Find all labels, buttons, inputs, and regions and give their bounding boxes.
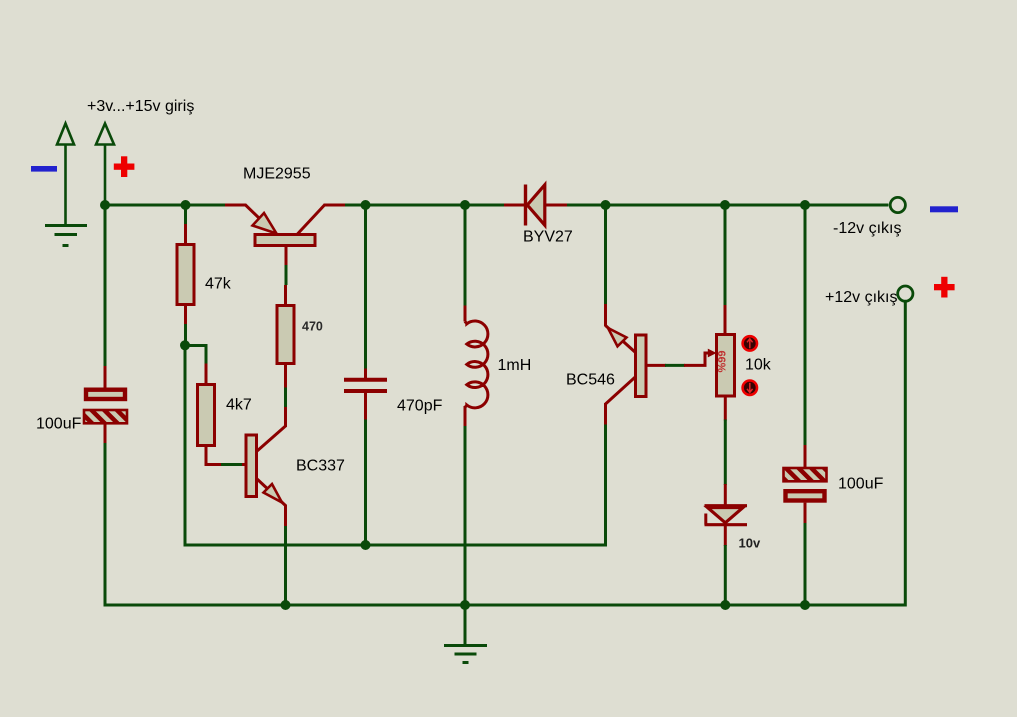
wire: zener bottom to ground bus: [724, 545, 727, 605]
junction: divider node A at (185,345.5): [180, 340, 190, 350]
svg-text:1mH: 1mH: [498, 357, 532, 374]
wire: BC546 emitter to feedback bus: [604, 425, 607, 547]
junction: inductor top at (465,205): [460, 200, 470, 210]
svg-text:47k: 47k: [205, 276, 232, 293]
junction: 470pF tap on feedback bus: [361, 540, 371, 550]
wire: +12v terminal down to ground bus: [904, 302, 907, 607]
wire: 4k7 to BC337 base: [221, 463, 242, 466]
svg-text:%99: %99: [717, 350, 729, 372]
junction: output cap tap at (805,205): [800, 200, 810, 210]
transistor BC337 (NPN): [242, 407, 286, 527]
wire: 470pF bottom to feedback bus: [364, 420, 367, 546]
wire: 47k bottom to divider node: [184, 324, 187, 346]
node: minus polarity marker (output): [930, 206, 958, 212]
potentiometer 10k: [684, 304, 735, 421]
wire: BC546 collector up: [604, 205, 607, 304]
junction: input node at (105,205): [100, 200, 110, 210]
svg-text:BC337: BC337: [296, 458, 345, 475]
wire: inductor bottom to ground bus: [464, 426, 467, 605]
svg-text:4k7: 4k7: [226, 397, 252, 414]
node: minus polarity marker (input): [31, 166, 57, 172]
wire: MJE2955 base to 470: [285, 265, 288, 285]
capacitor 100uF (input, left): [84, 366, 127, 444]
wire: output rail (-12v net, top right): [567, 204, 889, 207]
junction: 47k tap at (185.5,205): [181, 200, 191, 210]
node: plus polarity marker (input): [114, 156, 135, 177]
junction: output cap tap on ground bus: [800, 600, 810, 610]
svg-text:470pF: 470pF: [397, 398, 443, 415]
wire: input cap bottom to ground bus: [104, 443, 107, 607]
wire: output cap top: [804, 205, 807, 445]
wire: collector rail (switch node, top middle): [345, 204, 504, 207]
svg-text:10v: 10v: [739, 536, 761, 551]
junction: BC337 emitter on ground bus: [281, 600, 291, 610]
transistor BC546 (NPN): [605, 303, 666, 426]
terminal: +12v output: [898, 286, 913, 301]
transistor MJE2955 (PNP, top): [225, 205, 345, 266]
wire: 470 bottom to BC337 collector: [284, 388, 287, 409]
wire: output cap bottom to ground bus: [804, 523, 807, 605]
inductor 1mH: [465, 304, 488, 427]
svg-text:BYV27: BYV27: [523, 229, 573, 246]
feedback bus wire (middle horizontal): [185, 544, 606, 547]
resistor 470: [277, 285, 294, 389]
wire: input rail (top left, +V net): [105, 205, 225, 368]
wire: BC546 base link: [665, 364, 685, 367]
resistor 4k7: [198, 364, 223, 465]
junction: pot top tap at (725,205): [720, 200, 730, 210]
svg-text:470: 470: [302, 320, 323, 334]
node: plus polarity marker (output): [934, 277, 955, 298]
capacitor 100uF (output, right): [784, 444, 827, 525]
wire: divider node jog to 4k7: [185, 346, 206, 365]
wire: pot bottom to zener: [724, 420, 727, 486]
wire: inductor top: [464, 205, 467, 306]
wire: BC337 emitter to ground bus: [284, 526, 287, 605]
svg-text:100uF: 100uF: [36, 416, 82, 433]
wire: 470pF top: [364, 205, 367, 369]
power symbol (negative rail arrow, top-left): [57, 124, 74, 225]
zener diode 10v: [705, 484, 748, 546]
svg-text:+3v...+15v giriş: +3v...+15v giriş: [87, 98, 194, 115]
power symbol (positive input arrow): [96, 124, 114, 206]
junction: zener tap on ground bus: [720, 600, 730, 610]
wire: divider node down to feedback bus: [184, 346, 187, 547]
ground bus wire (bottom horizontal): [105, 604, 905, 607]
pot down-button: [743, 381, 757, 395]
svg-text:10k: 10k: [745, 357, 772, 374]
capacitor 470pF: [344, 367, 387, 421]
diode BYV27: [504, 185, 567, 226]
wire: pot top: [724, 205, 727, 305]
svg-text:-12v çıkış: -12v çıkış: [833, 220, 901, 237]
ground symbol (bottom center): [444, 605, 487, 663]
svg-text:MJE2955: MJE2955: [243, 166, 311, 183]
junction: 470pF top at (365.5,205): [361, 200, 371, 210]
junction: inductor/ground tap on ground bus: [460, 600, 470, 610]
svg-text:100uF: 100uF: [838, 476, 884, 493]
terminal: -12v output: [890, 197, 905, 212]
junction: BC546 collector tap at (605.5,205): [601, 200, 611, 210]
resistor 47k: [177, 224, 194, 325]
svg-text:BC546: BC546: [566, 372, 615, 389]
ground (below left power arrow): [45, 226, 87, 246]
svg-text:+12v çıkış: +12v çıkış: [825, 289, 897, 306]
pot up-button: [743, 336, 757, 350]
